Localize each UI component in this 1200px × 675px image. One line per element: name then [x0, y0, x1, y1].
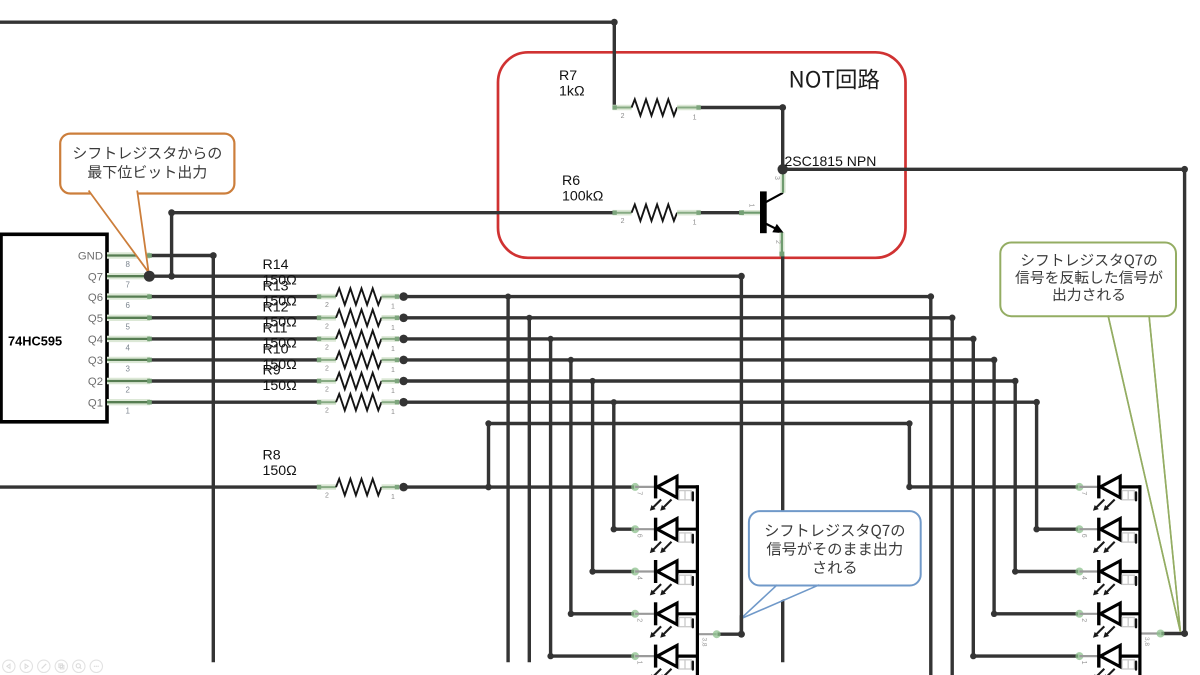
svg-text:7: 7: [126, 281, 131, 290]
wire R12 output row: [404, 337, 974, 340]
green callout text line2: [1015, 270, 1162, 284]
wire middle drop at x=592.6: [591, 381, 594, 572]
wire top rail from left edge: [0, 21, 614, 24]
junction resistor output: [399, 314, 408, 323]
callout orange: shift register LSB output: [60, 134, 234, 273]
bendpoint right output corner (redraw): [1181, 630, 1188, 637]
IC pin 7 (Q7): [107, 274, 152, 279]
bendpoint Q7 riser corner: [168, 209, 175, 216]
wire R8 output to middle LED1: [404, 485, 633, 488]
wire right drop at x=1036.6: [1035, 402, 1038, 529]
svg-text:150Ω: 150Ω: [263, 463, 297, 479]
wire to right LED anode y=529.2: [1037, 528, 1077, 531]
LED D1 (middle array) (pin 7): [631, 475, 699, 510]
svg-text:Q1: Q1: [88, 397, 103, 409]
junction node A: Q7 output: [144, 271, 155, 282]
right array common pin 3,8 stub: [1142, 630, 1165, 638]
svg-text:1: 1: [391, 494, 395, 501]
wire down to collector node: [781, 108, 784, 170]
svg-text:2: 2: [325, 323, 329, 330]
svg-text:6: 6: [636, 534, 643, 538]
svg-text:Q4: Q4: [88, 334, 103, 346]
svg-text:3: 3: [126, 364, 131, 373]
IC pin 3 (Q3): [107, 358, 152, 363]
svg-text:2: 2: [325, 387, 329, 394]
junction resistor output: [399, 398, 408, 407]
svg-text:6: 6: [1080, 534, 1087, 538]
junction on resistor row: [590, 378, 596, 384]
wire middle drop at x=550.6: [549, 339, 552, 656]
bendpoint bypass left corner: [485, 420, 491, 426]
wire right column down to LED2 output: [1183, 169, 1186, 633]
wire right drop at x=973.3: [972, 339, 975, 656]
wire Q7 to R6 row: [172, 211, 612, 214]
wire Q6 pin to resistor: [150, 295, 317, 298]
svg-text:Q6: Q6: [88, 292, 103, 304]
svg-text:1: 1: [748, 204, 755, 208]
svg-text:2: 2: [126, 386, 131, 395]
svg-text:2SC1815 NPN: 2SC1815 NPN: [785, 153, 877, 169]
wire bypass drop to right LED1: [908, 424, 911, 487]
wire middle bus column below blue tail tip: [740, 617, 743, 634]
svg-text:1: 1: [391, 304, 395, 311]
junction on resistor row: [548, 336, 554, 342]
LED D4 (right array) (pin 2): [1075, 602, 1141, 637]
svg-text:1: 1: [636, 661, 643, 665]
bendpoint staircase corner: [1033, 399, 1040, 406]
resistor R9 (150Ω): [317, 394, 399, 410]
bendpoint right drop corner: [1012, 568, 1018, 574]
junction on resistor row: [568, 357, 574, 363]
svg-text:1: 1: [391, 388, 395, 395]
svg-text:2: 2: [325, 493, 329, 500]
wire right LED1 anode: [909, 485, 1076, 488]
svg-text:GND: GND: [78, 251, 103, 263]
wire R8 feed from left edge: [0, 485, 317, 488]
wire Q7 row to middle LED bus column: [149, 275, 741, 278]
wire to right LED anode y=613.8: [994, 612, 1076, 615]
wire down to R7: [613, 22, 616, 104]
svg-text:5: 5: [126, 322, 131, 331]
svg-text:Q3: Q3: [88, 355, 103, 367]
wire right drop at x=1015.2: [1014, 381, 1017, 572]
bendpoint middle drop corner: [568, 611, 574, 617]
wire middle drop at x=570.9: [569, 360, 572, 614]
R6 value label: [562, 173, 603, 204]
wire to right LED anode y=656.1: [973, 654, 1076, 657]
LED D3 (right array) (pin 4): [1075, 560, 1141, 595]
svg-text:1: 1: [693, 220, 697, 227]
svg-text:1: 1: [391, 325, 395, 332]
bendpoint middle drop corner: [589, 568, 595, 574]
IC pin 2 (Q2): [107, 379, 152, 384]
wire R10 output row: [404, 379, 1016, 382]
resistor R10 (150Ω): [317, 373, 399, 389]
wire collector net to right: [783, 168, 1185, 171]
bendpoint R7 corner: [779, 104, 786, 111]
LED array right cathode bus: [1138, 485, 1141, 675]
R12 value label: [263, 299, 297, 330]
label NOT回路: [791, 69, 880, 90]
bendpoint right drop corner: [991, 611, 997, 617]
R14 value label: [263, 257, 297, 288]
orange callout text line1: [74, 146, 221, 159]
svg-text:R7: R7: [559, 68, 577, 84]
wire right bus output: [1163, 632, 1185, 635]
bendpoint GND corner: [210, 252, 217, 259]
transistor Q1 2SC1815 NPN: [739, 171, 784, 256]
callout green: inverted Q7 signal output: [1000, 243, 1180, 632]
svg-text:1kΩ: 1kΩ: [559, 83, 585, 99]
resistor R6 (100kΩ): [612, 205, 700, 221]
R7 value label: [559, 68, 585, 99]
svg-text:1: 1: [391, 409, 395, 416]
resistor R12 (150Ω): [317, 331, 399, 347]
svg-text:R9: R9: [263, 363, 281, 379]
blue callout text line3: [814, 561, 855, 574]
resistor R7 (1kΩ): [612, 99, 700, 115]
bendpoint Q7 row right corner: [738, 273, 745, 280]
LED D5 (middle array) (pin 1): [631, 645, 699, 675]
bendpoint staircase corner: [928, 293, 935, 300]
junction on resistor row: [611, 399, 617, 405]
wire R13 output row: [404, 316, 953, 319]
svg-text:2: 2: [325, 365, 329, 372]
svg-text:2: 2: [325, 408, 329, 415]
R10 value label: [263, 342, 297, 373]
IC pin 4 (Q4): [107, 337, 152, 342]
wire middle drop at x=613.8: [612, 402, 615, 529]
R13 value label: [263, 278, 297, 309]
svg-text:1: 1: [126, 407, 131, 416]
wire middle bus column down: [740, 276, 743, 634]
resistor R14 (150Ω): [317, 288, 399, 304]
svg-text:1: 1: [391, 346, 395, 353]
svg-text:R11: R11: [263, 320, 288, 336]
LED array middle cathode bus: [696, 485, 699, 675]
bendpoint middle drop corner: [547, 653, 553, 659]
NOT circuit annotation box: [498, 52, 906, 257]
wire middle bus output: [719, 633, 741, 636]
wire GND pin to corner: [150, 254, 213, 257]
svg-text:Q7: Q7: [88, 271, 103, 283]
bendpoint middle output corner (redraw): [738, 631, 745, 638]
wire Q5 pin to resistor: [150, 316, 317, 319]
svg-text:2: 2: [621, 113, 625, 120]
bendpoint staircase corner: [949, 315, 956, 322]
wire Q3 pin to resistor: [150, 358, 317, 361]
wire right drop at x=952.2: [951, 318, 954, 675]
wire R9 output row: [404, 401, 1037, 404]
bendpoint right drop corner: [970, 653, 976, 659]
svg-text:7: 7: [636, 491, 643, 495]
wire to middle LED anode y=656.1: [551, 654, 633, 657]
svg-text:2: 2: [621, 218, 625, 225]
toolbar icons (decorative): [3, 660, 103, 672]
junction R8 bypass riser: [485, 484, 492, 491]
bendpoint staircase corner: [991, 357, 998, 364]
svg-text:2: 2: [325, 302, 329, 309]
bendpoint top rail corner: [611, 19, 618, 26]
wire to middle LED anode y=613.8: [571, 612, 633, 615]
svg-text:3,8: 3,8: [1143, 637, 1150, 646]
wire GND column down: [212, 256, 215, 661]
wire right drop at x=994.1: [992, 360, 995, 614]
blue callout text line2: [767, 542, 902, 556]
IC U1 74HC595: [1, 234, 107, 421]
bendpoint bypass right corner: [906, 420, 912, 426]
svg-text:6: 6: [126, 301, 131, 310]
svg-text:R8: R8: [263, 448, 281, 464]
bendpoint right output corner: [1181, 630, 1188, 637]
junction Q7 riser on Q7 row: [168, 273, 175, 280]
resistor R11 (150Ω): [317, 352, 399, 368]
LED D2 (middle array) (pin 6): [631, 518, 699, 553]
svg-text:4: 4: [126, 343, 131, 352]
bendpoint middle output corner: [738, 631, 745, 638]
svg-text:Q2: Q2: [88, 376, 103, 388]
wire R11 output row: [404, 358, 995, 361]
junction resistor output: [399, 356, 408, 365]
svg-text:2: 2: [325, 344, 329, 351]
junction on resistor row: [526, 315, 532, 321]
blue callout text line1: [766, 524, 904, 539]
middle array common pin 3,8 stub: [699, 630, 721, 638]
wire to middle LED anode y=529.2: [614, 528, 633, 531]
wire right drop at x=930.8: [929, 297, 932, 675]
wire emitter column down: [781, 257, 784, 661]
R9 value label: [263, 363, 297, 394]
svg-text:2: 2: [1080, 618, 1087, 622]
IC pin 6 (Q6): [107, 294, 152, 299]
IC pin 1 (Q1): [107, 400, 152, 405]
IC pin 8 (GND): [107, 253, 152, 258]
wire Q2 pin to resistor: [150, 379, 317, 382]
bendpoint right drop corner: [1033, 526, 1039, 532]
svg-text:3,8: 3,8: [701, 638, 708, 647]
junction resistor output: [399, 335, 408, 344]
svg-text:R6: R6: [562, 173, 580, 189]
resistor R8 (150Ω): [317, 479, 399, 495]
green callout text line1: [1022, 253, 1157, 268]
svg-text:4: 4: [1080, 576, 1087, 580]
svg-text:2: 2: [636, 618, 643, 622]
R8 value label: [263, 448, 297, 479]
svg-text:4: 4: [636, 576, 643, 580]
svg-text:74HC595: 74HC595: [8, 334, 62, 349]
bendpoint middle drop corner: [611, 526, 617, 532]
wire bypass row: [489, 422, 910, 425]
junction resistor output: [399, 292, 408, 301]
LED D1 (right array) (pin 7): [1075, 475, 1141, 510]
svg-text:R10: R10: [263, 342, 289, 358]
svg-text:7: 7: [1080, 491, 1087, 495]
wire to middle LED anode y=571.5: [593, 570, 633, 573]
svg-text:R13: R13: [263, 278, 289, 294]
wire R14 output row: [404, 295, 931, 298]
wire R6 output to base: [701, 211, 738, 214]
svg-text:8: 8: [126, 260, 131, 269]
svg-text:1: 1: [391, 367, 395, 374]
svg-text:100kΩ: 100kΩ: [562, 189, 603, 205]
wire Q1 pin to resistor: [150, 401, 317, 404]
svg-text:Q5: Q5: [88, 313, 103, 325]
wire bypass riser: [487, 424, 490, 488]
LED D2 (right array) (pin 6): [1075, 518, 1141, 553]
resistor R13 (150Ω): [317, 310, 399, 326]
svg-text:1: 1: [693, 115, 697, 122]
junction resistor output: [399, 483, 408, 492]
wire R7 output to collector column: [701, 106, 782, 109]
wire to right LED anode y=571.5: [1015, 570, 1076, 573]
bendpoint right LED1 corner: [906, 484, 912, 490]
junction on resistor row: [505, 294, 511, 300]
callout blue: Q7 signal direct output: [741, 511, 921, 619]
wire Q4 pin to resistor: [150, 337, 317, 340]
junction resistor output: [399, 377, 408, 386]
orange callout text line2: [88, 165, 206, 179]
bendpoint staircase corner: [970, 336, 977, 343]
wire middle drop at x=529.3: [528, 318, 531, 661]
svg-text:1: 1: [1080, 661, 1087, 665]
svg-text:150Ω: 150Ω: [263, 378, 297, 394]
bendpoint staircase corner: [1012, 378, 1019, 385]
LED D4 (middle array) (pin 2): [631, 602, 699, 637]
wire middle drop at x=508.1: [506, 297, 509, 661]
green callout text line3: [1054, 288, 1124, 302]
svg-text:2: 2: [774, 240, 781, 244]
wire Q7 riser: [170, 213, 173, 277]
bendpoint collector rail corner: [1181, 166, 1188, 173]
svg-text:3: 3: [773, 176, 780, 180]
svg-text:R14: R14: [263, 257, 289, 273]
LED D3 (middle array) (pin 4): [631, 560, 699, 595]
svg-text:R12: R12: [263, 299, 289, 315]
IC pin 5 (Q5): [107, 316, 152, 321]
R11 value label: [263, 320, 297, 351]
LED D5 (right array) (pin 1): [1075, 645, 1141, 675]
junction collector node: [778, 164, 788, 174]
